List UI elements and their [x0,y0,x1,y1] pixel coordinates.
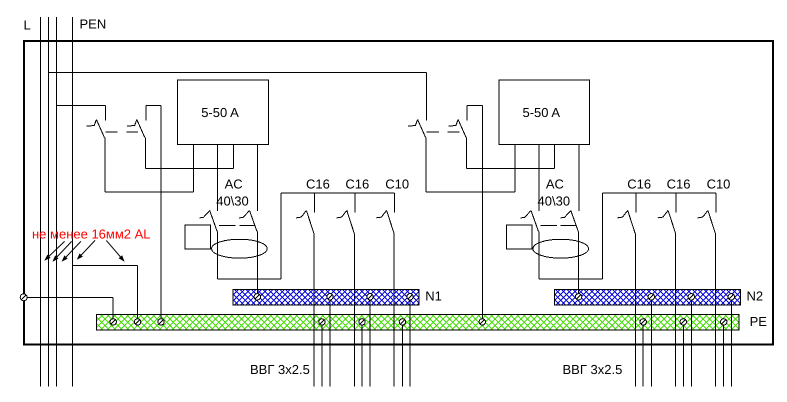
wire breaker pole 2 to meter terminal 3 [145,138,233,169]
wire neutral to cable 3 [730,300,732,387]
note arrow 4 [77,240,95,259]
terminal PE 1 [110,319,116,325]
node PEN riser [72,17,74,387]
node L riser 2 [48,17,50,387]
RCD QD2 mechanical link [541,224,577,226]
breaker SF11 contact [296,210,314,233]
wire neutral to cable 2 [690,300,692,387]
label C16 [667,177,691,192]
label L [24,18,31,33]
wire RCD neutral output to N1 bus [256,232,258,294]
node L riser 3 [56,17,58,387]
wire breaker pole 1 to meter terminal 1 [105,138,194,193]
svg-text:AC: AC [546,177,564,192]
wire PE to cable 1 [642,325,644,386]
breaker SF21 contact [617,210,635,233]
RCD QD1 mechanical link [219,224,255,226]
RCD QD2 test element box [506,225,532,249]
wire L3 feed to section 1 breaker [57,104,106,106]
breaker SF21 C16 terminal [635,193,637,213]
wire meter terminal 4 to RCD [578,145,580,211]
terminal N1 from RCD [254,294,260,300]
breaker QF1 mechanical link [105,131,138,133]
note arrow 5 [106,240,124,261]
breaker SF13 contact [376,210,394,233]
note: не менее 16мм2 AL [32,227,151,242]
svg-text:C16: C16 [345,177,369,192]
terminal N1 circuit 3 [407,294,413,300]
wire neutral to cable 3 [409,300,411,387]
svg-text:C10: C10 [707,177,731,192]
svg-text:C16: C16 [306,177,330,192]
svg-text:N2: N2 [747,289,764,304]
RCD QD2 pole 1 contact [521,211,539,232]
wire PEN tap down to PE bus [481,105,483,318]
RCD QD2 toroid [533,239,589,258]
wire neutral to cable 1 [329,300,331,387]
wire RCD phase output to group bus [539,193,603,279]
breaker QF2 pole 2 contact [448,120,466,138]
breaker QF2 pole 1 contact [408,120,426,138]
wire PE to cable 1 [321,325,323,386]
wire L2 feed to section 2 [49,71,427,73]
svg-text:ВВГ 3x2.5: ВВГ 3x2.5 [563,362,623,377]
breaker QF1 pole 2 terminal (PEN tap) [146,105,161,120]
RCD QD1 pole 1 contact [199,211,217,232]
terminal PE circuit 1 [319,319,325,325]
wire meter terminal 2 to RCD [538,145,540,211]
breaker QF1 pole 1 contact [87,120,105,138]
wire PE to cable 2 [682,325,684,386]
svg-text:C16: C16 [667,177,691,192]
terminal PE circuit 1 [640,319,646,325]
breaker QF1 pole 1 terminal [104,105,106,120]
label AC [225,177,243,192]
svg-text:PE: PE [750,314,768,329]
label N2 [747,289,764,304]
wire PE to cable 2 [361,325,363,386]
wire phase to cable 1 [313,234,315,387]
breaker SF23 contact [698,210,716,233]
terminal N2 circuit 2 [688,294,694,300]
note arrow 2 [52,241,71,261]
wire PEN riser to PE bus [73,265,138,318]
RCD QD1 test element box [185,225,211,249]
wire PE to cable 3 [723,325,725,386]
wire phase to cable 1 [634,234,636,387]
terminal PE circuit 2 [680,319,686,325]
RCD QD1 toroid [212,239,268,258]
label C10 [707,177,731,192]
label N1 [425,289,442,304]
terminal PE 2 [134,319,140,325]
breaker QF2 pole 1 terminal [426,72,428,120]
breaker QF2 mechanical link [427,131,460,133]
wire phase to cable 2 [675,234,677,387]
wire meter terminal 2 to RCD [217,145,219,211]
terminal PE from PEN tap [479,319,485,325]
wire RCD neutral output to N2 bus [578,232,580,294]
meter PI1 5-50 A [178,80,269,145]
label C16 [306,177,330,192]
breaker SF23 C10 terminal [715,193,717,213]
label PEN [80,17,107,32]
RCD QD2 pole 2 contact [561,211,579,232]
note arrow 3 [62,241,81,261]
label 40\30 [216,194,249,209]
panel enclosure border [24,41,773,345]
svg-text:40\30: 40\30 [216,194,249,209]
label C10 [385,177,409,192]
breaker SF12 contact [336,210,354,233]
bus N1 [217,290,432,306]
svg-text:не менее 16мм2 AL: не менее 16мм2 AL [32,227,151,242]
label 5-50 A [201,105,239,120]
svg-text:ВВГ 3x2.5: ВВГ 3x2.5 [250,362,310,377]
svg-text:C10: C10 [385,177,409,192]
wire PE to cable 3 [401,325,403,386]
breaker SF22 contact [658,210,676,233]
terminal PE from PEN tap [158,319,164,325]
wire group breaker supply bus [281,192,395,194]
svg-text:40\30: 40\30 [538,194,571,209]
breaker SF12 C16 terminal [354,193,356,213]
breaker SF13 C10 terminal [394,193,396,213]
wire breaker pole 2 to meter terminal 3 [467,138,555,169]
breaker SF11 C16 terminal [314,193,316,213]
wire phase to cable 3 [393,234,395,387]
svg-text:N1: N1 [425,289,442,304]
wire neutral to cable 1 [650,300,652,387]
terminal N1 circuit 1 [327,294,333,300]
wire enclosure bond to PE bus [27,297,113,318]
terminal N1 circuit 2 [367,294,373,300]
label C16 [345,177,369,192]
label cable BBG 3x2.5 [563,362,623,377]
wire group breaker supply bus [603,192,717,194]
terminal PE circuit 2 [359,319,365,325]
terminal on enclosure (PE bond) [20,294,27,301]
wire meter terminal 4 to RCD [257,145,259,211]
label PE [750,314,768,329]
wire phase to cable 3 [715,234,717,387]
RCD QD1 pole 2 contact [239,211,257,232]
breaker SF22 C16 terminal [675,193,677,213]
wire neutral to cable 2 [369,300,371,387]
svg-text:C16: C16 [627,177,651,192]
svg-text:5-50 A: 5-50 A [201,105,239,120]
terminal N2 circuit 3 [728,294,734,300]
bus N2 [539,290,754,306]
label 5-50 A [523,105,561,120]
wire RCD phase output to group bus [218,193,282,279]
note arrow 1 [44,241,64,260]
wire phase to cable 2 [353,234,355,387]
label cable BBG 3x2.5 [250,362,310,377]
svg-text:PEN: PEN [80,17,107,32]
svg-text:AC: AC [225,177,243,192]
breaker QF1 pole 2 contact [127,120,145,138]
label C16 [627,177,651,192]
svg-text:5-50 A: 5-50 A [523,105,561,120]
wire PEN tap down to PE bus [160,105,162,318]
terminal PE circuit 3 [721,319,727,325]
bus PE [81,314,753,330]
terminal N2 circuit 1 [648,294,654,300]
label 40\30 [538,194,571,209]
terminal N2 from RCD [575,294,581,300]
breaker QF2 pole 2 terminal (PEN tap) [467,105,482,120]
wire breaker pole 1 to meter terminal 1 [426,138,515,193]
terminal PE circuit 3 [399,319,405,325]
node L riser 1 [40,17,42,387]
svg-text:L: L [24,18,31,33]
meter PI2 5-50 A [499,80,590,145]
label AC [546,177,564,192]
